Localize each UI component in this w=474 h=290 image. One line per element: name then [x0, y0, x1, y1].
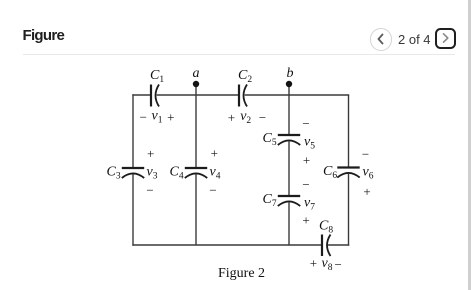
capacitor C7: [278, 196, 300, 206]
wire branch b middle: [288, 142, 290, 196]
svg-text:+: +: [303, 153, 310, 168]
next page button: [435, 28, 457, 49]
svg-text:−: −: [362, 147, 369, 162]
svg-text:−: −: [146, 183, 153, 198]
svg-text:−: −: [302, 177, 309, 192]
wire left edge lower: [132, 174, 134, 246]
svg-text:+: +: [302, 213, 309, 228]
svg-text:−: −: [140, 110, 147, 125]
capacitor C2: [239, 85, 247, 107]
svg-text:v7: v7: [304, 196, 315, 213]
wire branch a upper: [195, 84, 197, 167]
svg-text:a: a: [193, 66, 200, 81]
svg-text:v3: v3: [147, 165, 158, 182]
svg-text:Figure 2: Figure 2: [218, 266, 265, 281]
svg-text:−: −: [259, 110, 266, 125]
svg-text:v2: v2: [240, 109, 251, 126]
wire right edge lower: [348, 174, 350, 246]
svg-text:C3: C3: [107, 165, 121, 182]
svg-text:v4: v4: [210, 165, 221, 182]
svg-text:C5: C5: [263, 131, 277, 148]
wire branch b upper: [288, 84, 290, 134]
svg-text:v8: v8: [322, 256, 333, 273]
svg-text:−: −: [209, 183, 216, 198]
svg-text:−: −: [335, 257, 342, 272]
wire top rail C2 to right corner: [245, 94, 350, 96]
svg-text:+: +: [147, 146, 154, 161]
wire bottom rail C8 to right corner: [327, 244, 349, 246]
wire bottom rail left of C8: [132, 244, 321, 246]
wire right edge upper: [348, 95, 350, 167]
wire branch b lower: [288, 203, 290, 246]
wire branch a lower: [195, 174, 197, 245]
capacitor C6: [337, 168, 359, 178]
node a dot: [193, 81, 199, 87]
header title: [23, 27, 65, 44]
svg-text:+: +: [363, 184, 370, 199]
svg-text:C2: C2: [238, 68, 252, 85]
pager text: [398, 32, 431, 47]
svg-text:+: +: [228, 110, 235, 125]
svg-text:+: +: [211, 146, 218, 161]
svg-text:+: +: [167, 110, 174, 125]
svg-text:C8: C8: [319, 219, 333, 236]
wire left edge upper: [132, 94, 134, 167]
header rule: [23, 54, 455, 55]
capacitor C3: [122, 168, 144, 178]
capacitor C4: [185, 168, 207, 178]
svg-text:C6: C6: [323, 164, 337, 181]
svg-text:C7: C7: [263, 192, 277, 209]
svg-text:v1: v1: [152, 109, 163, 126]
capacitor C1: [151, 85, 159, 107]
capacitor C8: [322, 235, 331, 257]
right panel divider: [468, 0, 471, 290]
svg-text:−: −: [302, 116, 309, 131]
svg-text:C1: C1: [150, 68, 164, 85]
svg-text:+: +: [310, 256, 317, 271]
svg-text:v6: v6: [363, 165, 374, 182]
prev page button: [370, 28, 392, 50]
capacitor C5: [278, 135, 300, 145]
node b dot: [286, 81, 292, 87]
wire top rail C1 to C2: [157, 94, 239, 96]
svg-text:v5: v5: [304, 135, 315, 152]
svg-text:C4: C4: [170, 165, 184, 182]
svg-text:b: b: [287, 66, 294, 81]
wire top rail left of C1: [132, 94, 150, 96]
